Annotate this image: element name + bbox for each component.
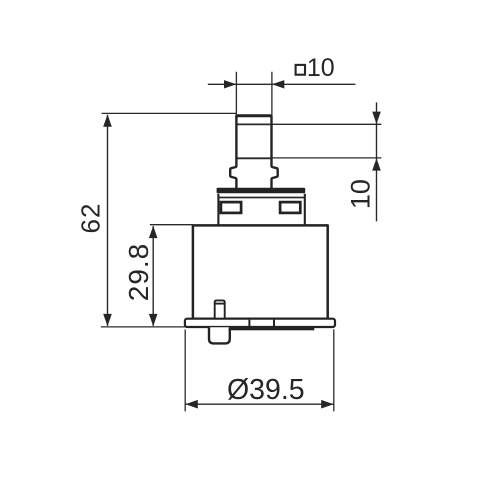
dimension diameter 39.5 right extension line bbox=[333, 329, 335, 411]
svg-text:10: 10 bbox=[346, 179, 376, 209]
svg-text:10: 10 bbox=[307, 54, 335, 82]
collar left notch rectangle bbox=[221, 202, 241, 213]
collar right notch rectangle bbox=[280, 202, 300, 213]
collar top thin line bbox=[218, 197, 304, 199]
dimension diameter 39.5 left extension line bbox=[184, 329, 186, 411]
dimension 10 right vertical line bbox=[376, 102, 378, 221]
collar box sides bbox=[218, 194, 304, 225]
dimension 10 right up arrowhead bbox=[372, 158, 381, 170]
bottom tab bbox=[209, 327, 230, 343]
stem cross line upper (top of 10 section) bbox=[238, 123, 271, 125]
dimension diameter 39.5 right arrowhead bbox=[321, 400, 333, 409]
body (main cartridge cylinder) bbox=[193, 225, 328, 318]
collar dark bar bbox=[217, 188, 306, 194]
square symbol of label 10 bbox=[296, 65, 305, 75]
dimension 10 right down arrowhead bbox=[372, 112, 381, 124]
dimension square-10 left arrowhead bbox=[224, 80, 236, 88]
stem cross line lower (bottom of 10 section) bbox=[238, 157, 271, 159]
dimension diameter 39.5 line bbox=[185, 403, 334, 405]
stem top cap extra-thick top edge bbox=[235, 114, 272, 117]
dimension square-10 extension lines bbox=[236, 72, 272, 115]
dimension 62 top arrowhead bbox=[103, 114, 112, 126]
flange divider right bbox=[273, 320, 275, 327]
dimension square-10 right arrowhead bbox=[272, 80, 284, 88]
flange (base plate) bbox=[185, 319, 335, 327]
dimension 62 bottom arrowhead bbox=[103, 314, 112, 326]
dimension 62 vertical line bbox=[107, 115, 109, 326]
dimension 29.8 vertical line bbox=[152, 226, 154, 326]
dimension diameter 39.5 left arrowhead bbox=[185, 400, 197, 409]
dimension 29.8 top extension line bbox=[150, 224, 193, 226]
dimension 10 right upper extension line bbox=[272, 123, 381, 125]
flange divider left bbox=[248, 320, 250, 327]
stem (square 10 shaft) outline bbox=[230, 116, 278, 189]
dimension 29.8 bottom arrowhead bbox=[149, 314, 158, 326]
svg-text:Ø39.5: Ø39.5 bbox=[227, 374, 305, 406]
dimension 29.8 top arrowhead bbox=[149, 226, 158, 238]
peg on flange bbox=[215, 300, 225, 318]
dimension 62 / 29.8 bottom extension line bbox=[101, 326, 185, 328]
dimension 62 top extension line bbox=[102, 112, 237, 114]
dimension square-10 line with tails bbox=[208, 83, 356, 85]
svg-text:29.8: 29.8 bbox=[123, 243, 154, 302]
dimension 10 right lower extension line bbox=[272, 157, 381, 159]
svg-text:62: 62 bbox=[75, 203, 105, 234]
dark strip under flange bbox=[231, 327, 315, 330]
